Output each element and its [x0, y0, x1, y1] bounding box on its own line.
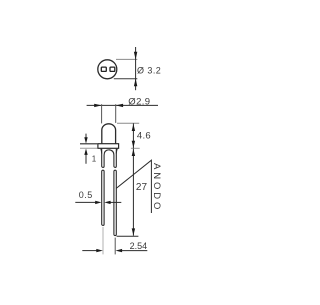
arrow up 4.6 — [132, 124, 135, 131]
arrow right 2.54 — [96, 249, 103, 252]
svg-text:4.6: 4.6 — [137, 131, 151, 142]
dimension line 2.54 right — [122, 250, 148, 252]
arrow left 0.5 — [110, 201, 121, 203]
LED flange — [98, 144, 119, 149]
arrow down 4.6 — [132, 141, 135, 148]
arrow up dim 1 — [85, 155, 87, 164]
svg-text:Ø2.9: Ø2.9 — [128, 96, 150, 107]
lead 2 upper segment — [109, 149, 117, 168]
leader line ANODO — [116, 160, 151, 213]
arrow right D2.9 — [94, 104, 102, 107]
svg-text:ANODO: ANODO — [151, 163, 162, 212]
extension line lead tip right — [117, 235, 139, 237]
extension line lead 2 tip — [114, 238, 116, 255]
extension line bottom tangent — [114, 78, 138, 80]
dimension line 2.54 left — [82, 250, 96, 252]
extension line top tangent — [116, 58, 137, 60]
arrow down dim 1 — [85, 134, 87, 138]
dimension line D3.2 — [135, 47, 137, 90]
LED top view body circle — [98, 60, 117, 79]
extension line lead 1 tip — [102, 227, 104, 254]
arrow up D3.2 — [134, 79, 137, 87]
arrow left 2.54 — [116, 249, 123, 252]
extension line dome top — [117, 122, 139, 124]
LED dome front view — [102, 124, 116, 144]
svg-text:0.5: 0.5 — [79, 190, 93, 200]
svg-text:1: 1 — [92, 154, 97, 163]
lead 2 lower segment — [114, 170, 116, 235]
extension line flange bottom right (dim 4.6) — [131, 147, 140, 149]
dimension line 4.6 — [132, 123, 134, 148]
arrow down D3.2 — [134, 52, 137, 60]
lead 1 upper segment — [102, 149, 109, 168]
arrow right 0.5 — [75, 201, 96, 203]
arrow down 27 — [132, 228, 135, 235]
arrow left D2.9 — [116, 104, 124, 107]
dimension line D2.9 — [87, 104, 158, 106]
lead 2 flare — [116, 149, 117, 154]
lead 1 lower segment — [102, 170, 104, 225]
arrow up 27 — [132, 149, 135, 156]
lead 1 flare — [100, 149, 103, 154]
svg-text:Ø 3.2: Ø 3.2 — [137, 66, 161, 76]
extension line flange bottom (dim 1) — [80, 147, 97, 149]
svg-text:2.54: 2.54 — [130, 241, 148, 251]
extension line flange top (dim 1) — [80, 143, 97, 145]
dimension line 27 — [132, 149, 134, 236]
extension line right D2.9 — [115, 104, 117, 123]
pin 2 pad (top view) — [110, 67, 115, 71]
extension line left D2.9 — [101, 104, 103, 123]
svg-text:27: 27 — [136, 182, 148, 193]
pin 1 pad (top view) — [101, 67, 106, 71]
